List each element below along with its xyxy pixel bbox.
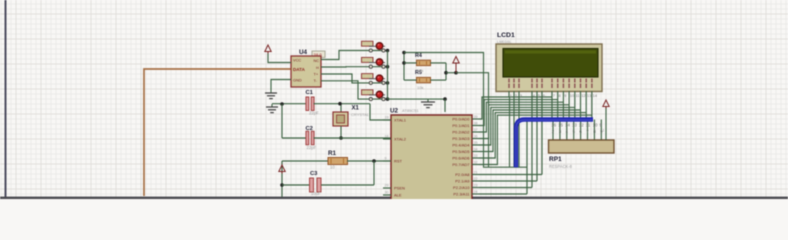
svg-text:14: 14: [565, 123, 570, 128]
svg-text:P0.6/AD6: P0.6/AD6: [452, 156, 470, 161]
svg-text:29: 29: [385, 184, 389, 188]
svg-text:GND: GND: [293, 78, 302, 83]
svg-text:24: 24: [474, 190, 478, 194]
svg-text:P2.0/A8: P2.0/A8: [455, 172, 470, 177]
svg-text:1: 1: [603, 129, 605, 133]
svg-text:P0.0/AD0: P0.0/AD0: [452, 117, 470, 122]
svg-text:T+: T+: [314, 72, 319, 77]
svg-text:U4: U4: [299, 49, 308, 56]
svg-text:39: 39: [474, 115, 478, 119]
svg-text:13: 13: [572, 123, 577, 128]
svg-text:VCC: VCC: [293, 58, 301, 63]
svg-text:R4: R4: [415, 53, 422, 59]
svg-text:RP1: RP1: [549, 156, 562, 163]
svg-text:PSEN: PSEN: [394, 186, 405, 191]
svg-text:14: 14: [593, 93, 598, 98]
svg-text:10uF: 10uF: [311, 191, 321, 196]
svg-text:LM016L: LM016L: [497, 39, 512, 44]
svg-text:U2: U2: [390, 108, 399, 115]
svg-text:P2.1/A9: P2.1/A9: [455, 179, 470, 184]
svg-text:P0.7/AD7: P0.7/AD7: [452, 162, 470, 167]
svg-text:P2.3/A11: P2.3/A11: [453, 192, 470, 197]
svg-text:19: 19: [385, 116, 389, 120]
svg-text:22pF: 22pF: [309, 111, 319, 116]
svg-text:RST: RST: [394, 159, 403, 164]
svg-text:X1: X1: [352, 106, 360, 112]
svg-text:RESPACK-8: RESPACK-8: [549, 164, 573, 169]
svg-text:32: 32: [474, 161, 478, 165]
svg-text:C1: C1: [306, 90, 314, 96]
svg-text:P0.3/AD3: P0.3/AD3: [452, 136, 470, 141]
svg-text:11: 11: [586, 123, 591, 128]
svg-text:CRYSTAL: CRYSTAL: [351, 112, 370, 117]
svg-text:10: 10: [593, 123, 598, 128]
svg-text:P0.1/AD1: P0.1/AD1: [452, 123, 470, 128]
svg-text:C3: C3: [310, 171, 318, 177]
svg-text:P0.4/AD4: P0.4/AD4: [452, 143, 470, 148]
svg-text:DATA: DATA: [293, 67, 306, 72]
svg-text:10: 10: [330, 165, 335, 170]
svg-text:XTAL1: XTAL1: [394, 118, 407, 123]
svg-text:23: 23: [474, 184, 478, 188]
svg-text:21: 21: [474, 171, 478, 175]
svg-text:22pF: 22pF: [307, 145, 317, 150]
svg-text:12: 12: [579, 123, 584, 128]
svg-text:22: 22: [474, 177, 478, 181]
svg-text:34: 34: [474, 148, 478, 152]
svg-text:30: 30: [385, 191, 389, 195]
svg-text:XTAL2: XTAL2: [394, 137, 407, 142]
svg-text:15: 15: [558, 123, 563, 128]
svg-text:33: 33: [474, 154, 478, 158]
svg-text:ALE: ALE: [394, 193, 402, 198]
svg-text:H: H: [316, 65, 319, 70]
svg-text:10k: 10k: [417, 68, 423, 73]
svg-text:P2.2/A10: P2.2/A10: [453, 185, 470, 190]
svg-text:P0.2/AD2: P0.2/AD2: [452, 130, 470, 135]
svg-text:35: 35: [474, 141, 478, 145]
svg-text:9: 9: [385, 157, 387, 161]
svg-text:NC: NC: [314, 58, 320, 63]
svg-text:10k: 10k: [417, 85, 423, 90]
svg-text:P0.5/AD5: P0.5/AD5: [452, 149, 470, 154]
svg-text:37: 37: [474, 128, 478, 132]
svg-text:16: 16: [551, 123, 556, 128]
svg-text:R1: R1: [328, 150, 337, 157]
svg-text:36: 36: [474, 135, 478, 139]
svg-text:18: 18: [385, 135, 389, 139]
svg-text:AT89C51: AT89C51: [402, 108, 419, 113]
svg-text:38: 38: [474, 122, 478, 126]
